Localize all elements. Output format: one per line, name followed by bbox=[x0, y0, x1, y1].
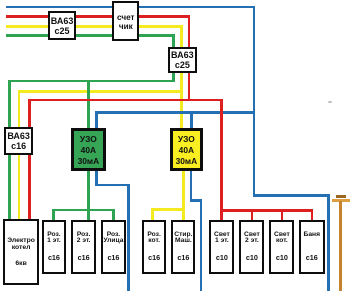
breaker: Roz 1 et c16 bbox=[42, 220, 67, 274]
wire: yellow phase horizontal top bbox=[6, 25, 183, 28]
breaker: Stir Mash c16 bbox=[171, 220, 195, 274]
wire: blue right vertical to bottom bbox=[327, 194, 330, 291]
wire: yellow bus over kot/stir breakers bbox=[151, 208, 185, 211]
wire: yellow vertical into breaker Q2 bbox=[180, 25, 183, 48]
wire: red vertical into breaker Q2 bbox=[188, 15, 191, 48]
wire: green left vertical to boiler bbox=[8, 80, 11, 221]
wire: blue RCD U1 output vertical bbox=[95, 171, 98, 186]
breaker Q2 VA63 c25 (after meter) bbox=[168, 47, 197, 74]
wire: red left vertical to boiler breaker bbox=[28, 99, 31, 221]
wire: green drop into RCD U1 input bbox=[87, 80, 90, 130]
RCD U2 UZO 40A 30mA (yellow) bbox=[170, 128, 204, 170]
wire: green vertical below Q2 bbox=[172, 73, 175, 82]
wire: yellow vertical below Q2 into RCD U2 bbox=[180, 73, 183, 130]
wire: red drop to Svet kot bbox=[281, 209, 284, 220]
wire: green RCD U1 output vertical bbox=[87, 171, 90, 221]
wire: blue RCD U1 output horizontal jog bbox=[95, 184, 130, 187]
wire: green vertical into breaker Q2 bbox=[172, 34, 175, 48]
breaker: Svet 1 et c10 bbox=[209, 220, 234, 274]
wire: green distribution horizontal bbox=[8, 80, 175, 83]
wire: green drop to Roz1 bbox=[52, 209, 55, 221]
ground rod: stem bbox=[339, 201, 342, 291]
load: electric boiler 6kW bbox=[3, 219, 39, 284]
wire: blue RCD U2 output vertical bbox=[190, 171, 193, 202]
wire: yellow drop to Roz kot bbox=[151, 208, 154, 220]
meter (schetchik) bbox=[112, 1, 139, 41]
breaker: Roz Ulitsa c16 bbox=[101, 220, 126, 274]
wire: yellow distribution horizontal bbox=[18, 90, 183, 93]
breaker: Roz 2 et c16 bbox=[71, 220, 96, 274]
RCD U1 UZO 40A 30mA (green) bbox=[71, 128, 106, 171]
wire: red bus over light breakers bbox=[220, 209, 313, 212]
wire: blue RCD U2 output horizontal jog bbox=[190, 199, 202, 202]
wire: blue neutral 2 vertical to bottom bbox=[200, 199, 203, 291]
wire: red drop to Banya bbox=[311, 209, 314, 220]
wire: red phase horizontal top bbox=[6, 15, 190, 18]
wire: green phase horizontal top bbox=[6, 34, 175, 37]
wire: yellow left vertical to boiler bbox=[18, 90, 21, 220]
breaker: Banya c16 bbox=[299, 220, 325, 274]
wire: blue drop into RCD U1 input bbox=[95, 111, 98, 130]
breaker: Svet 2 et c10 bbox=[239, 220, 264, 274]
wire: red distribution horizontal bbox=[28, 99, 223, 102]
wire: blue neutral 1 vertical to bottom bbox=[127, 184, 130, 291]
wire: blue main vertical right of meter bbox=[253, 6, 256, 197]
stray gray smudge bbox=[328, 101, 333, 103]
ground rod: dark top bar bbox=[336, 195, 346, 198]
wire: yellow RCD U2 output vertical bbox=[182, 171, 185, 221]
wire: green bus over socket breakers bbox=[52, 209, 114, 212]
ground rod: wide light bar bbox=[332, 199, 350, 202]
wire: blue drop into RCD U2 input bbox=[190, 111, 193, 130]
wire: green drop to Roz Ulitsa bbox=[112, 209, 115, 221]
breaker Q3 VA63 c16 (boiler) bbox=[4, 127, 33, 155]
breaker: Svet kot c10 bbox=[269, 220, 294, 274]
wire: blue horizontal to ground rod area bbox=[253, 194, 330, 197]
wire: red drop to Svet2 bbox=[251, 209, 254, 220]
wire: blue mid horizontal to RCDs bbox=[95, 111, 255, 114]
wire: red vertical below breaker Q2 bbox=[188, 73, 191, 101]
breaker Q1 VA63 c25 (top left) bbox=[48, 11, 77, 40]
wire: red right vertical to light group bbox=[220, 99, 223, 221]
wire: blue phase feed horizontal top bbox=[6, 6, 255, 9]
breaker: Roz kot c16 bbox=[142, 220, 166, 274]
